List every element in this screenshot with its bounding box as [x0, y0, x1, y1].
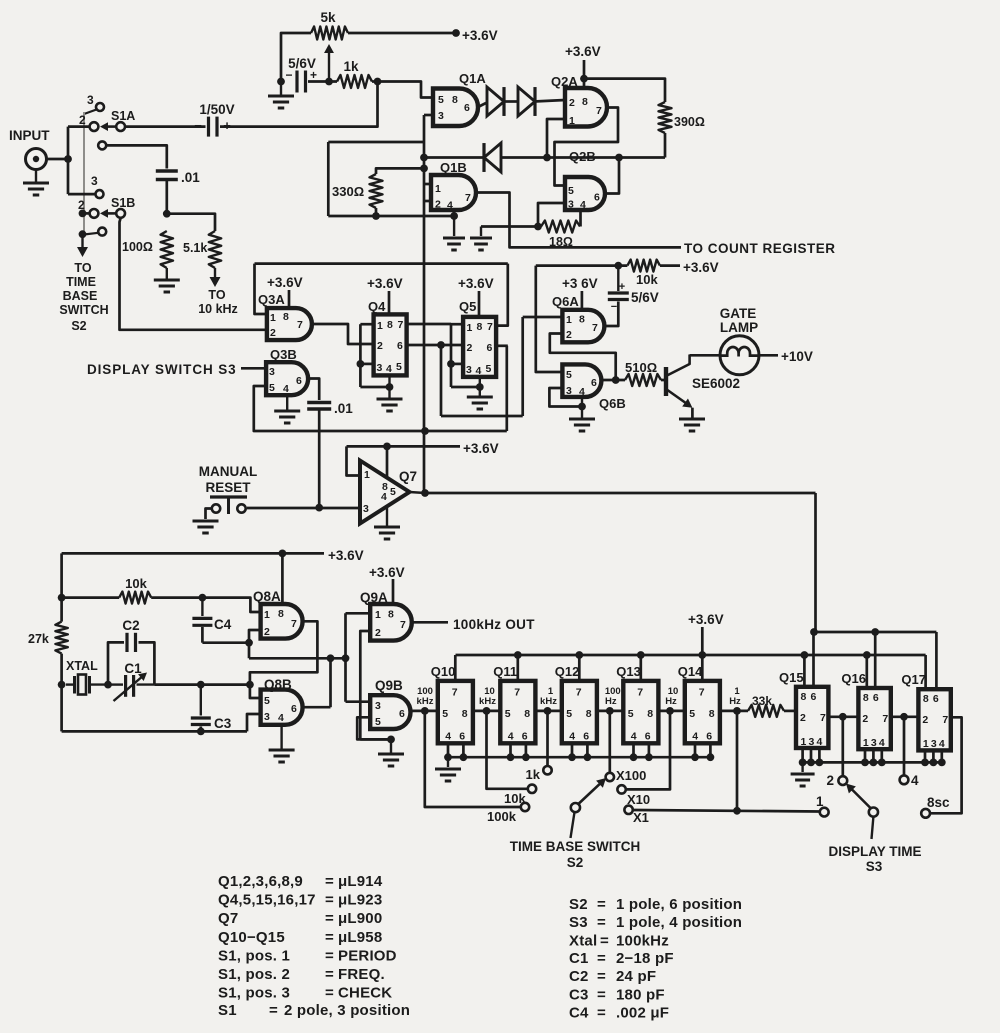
junction (Q1B ground node) [452, 210, 455, 216]
svg-text:C2: C2 [122, 618, 139, 633]
junction (Q5 feedback) [447, 360, 455, 368]
nand gate Q2B [565, 177, 605, 210]
svg-text:8: 8 [801, 691, 807, 703]
junction (Q8A supply) [279, 550, 287, 558]
svg-text:7: 7 [400, 619, 406, 631]
wire 10k to +3.6V [660, 264, 680, 267]
wire display ground bus [803, 761, 943, 764]
wire node to Q8A pin1 [202, 598, 260, 612]
junction (Q13 pin7 rail) [637, 651, 645, 659]
junction (tap) [666, 707, 674, 715]
junction (Q12 pin4 bus) [568, 753, 576, 761]
svg-text:S1A: S1A [111, 109, 135, 123]
transistor SE6002 collector [666, 364, 690, 376]
wire Q7 pin1 feedback [347, 446, 361, 475]
svg-text:2: 2 [270, 327, 276, 339]
svg-text:3: 3 [568, 199, 574, 211]
ground (Q8B) [281, 706, 283, 708]
ic Q14 [685, 681, 720, 743]
svg-text:8sc: 8sc [927, 795, 950, 810]
svg-text:1 pole, 6 position: 1 pole, 6 position [616, 896, 742, 913]
svg-text:5: 5 [486, 363, 492, 375]
wire Q1B pin1 stub [424, 183, 431, 186]
junction (1k left node) [325, 78, 333, 86]
wire C3 bottom [199, 727, 202, 732]
wire divider ground bus [448, 756, 710, 759]
wire Q6B output [601, 379, 625, 382]
svg-text:=: = [325, 910, 334, 927]
nand gate Q3A [267, 308, 312, 340]
wire Q17 out to contact 8sc [930, 717, 962, 813]
svg-text:2: 2 [79, 113, 86, 127]
wire contact4 stem [903, 717, 906, 776]
svg-text:TIME BASE SWITCH: TIME BASE SWITCH [510, 839, 641, 854]
contact 100k (S2) [521, 803, 529, 811]
svg-text:4: 4 [283, 383, 289, 395]
svg-text:1: 1 [801, 736, 807, 748]
svg-text:180 pF: 180 pF [616, 987, 665, 1004]
switch S1A wiper contact [116, 122, 125, 131]
svg-text:5: 5 [438, 94, 444, 106]
svg-text:C3: C3 [214, 716, 232, 731]
wire display switch to Q3B pin3 [241, 367, 266, 370]
wire +3.6V stem (dividers) [701, 627, 704, 655]
junction (Q8B out tap) [327, 654, 335, 662]
ground (18 ohm line) [480, 227, 482, 237]
svg-text:6: 6 [464, 102, 470, 114]
junction (Q7 out node) [421, 489, 429, 497]
wire Q14 pin6 stem [709, 743, 712, 757]
wire supply into Q7 [386, 446, 389, 479]
wire S2 wiper stem [571, 812, 575, 838]
wire +3.6V to Q4 [388, 291, 391, 314]
wire collector to lamp [690, 354, 721, 357]
junction (Q14 pin7 rail) [698, 651, 706, 659]
svg-text:=: = [597, 950, 606, 967]
junction (Q15.8 rail) [801, 651, 809, 659]
wire Q17 pin8 stem [924, 655, 927, 689]
svg-text:1k: 1k [343, 59, 359, 74]
svg-text:Xtal: Xtal [569, 933, 597, 950]
svg-text:S2: S2 [71, 319, 86, 333]
wire Q6A pin2 cross-couple [550, 334, 616, 381]
ic Q16 [858, 688, 890, 749]
svg-text:3: 3 [91, 174, 98, 188]
nand gate Q9B [370, 695, 410, 729]
wire S1A pos1 to .01 cap [107, 145, 167, 168]
wire divider interstage [658, 710, 684, 713]
svg-text:5: 5 [689, 708, 695, 720]
wire D3 to 390 node [500, 156, 665, 159]
wire bottom rail to Q8B pin3 [247, 714, 261, 731]
junction (330 ohm bottom) [372, 212, 380, 220]
junction (Q2A supply node) [580, 75, 588, 83]
svg-text:2: 2 [862, 713, 868, 725]
input jack J1 [26, 149, 47, 170]
wire Q7 line to display gates [816, 631, 937, 634]
wire S1A pos3 to bus [84, 110, 97, 115]
svg-text:6: 6 [706, 731, 712, 743]
svg-text:Q10: Q10 [431, 664, 456, 679]
svg-text:4: 4 [939, 738, 945, 750]
svg-text:6: 6 [873, 692, 879, 704]
ground (Q1B) [453, 216, 455, 236]
svg-text:4: 4 [386, 363, 392, 375]
svg-text:4: 4 [631, 731, 637, 743]
svg-text:X100: X100 [616, 768, 646, 783]
svg-text:TO: TO [208, 288, 225, 302]
svg-text:=: = [325, 929, 334, 946]
switch S1B wiper arrow [104, 212, 116, 215]
svg-text:Q8A: Q8A [253, 589, 281, 604]
svg-text:5: 5 [505, 708, 511, 720]
junction (Q11 pin7 rail) [514, 651, 522, 659]
svg-text:33k: 33k [752, 694, 772, 708]
svg-text:Q9A: Q9A [360, 590, 388, 605]
wire oscillator +3.6V rail [62, 552, 324, 555]
pushbutton manual reset [212, 504, 220, 512]
junction (Q4 feedback) [357, 360, 365, 368]
junction (C3 bottom) [197, 728, 205, 736]
svg-text:100Ω: 100Ω [122, 240, 153, 254]
wire Q13 pin7 stem [639, 655, 642, 681]
junction (S1B pos1 node) [79, 230, 87, 238]
svg-text:3: 3 [566, 385, 572, 397]
svg-text:+3.6V: +3.6V [328, 548, 364, 563]
wire Q8A pin2 net vertical [249, 630, 261, 658]
ground (divider bus) [447, 757, 449, 767]
svg-text:=: = [597, 987, 606, 1004]
wire Q8B output stub [303, 706, 331, 709]
transistor SE6002 emitter [666, 389, 690, 406]
junction (Q9B ground node) [387, 736, 395, 744]
svg-text:5: 5 [269, 382, 275, 394]
svg-text:6: 6 [645, 731, 651, 743]
resistor 5.1k [209, 231, 221, 268]
wire Q12 pin4 stem [571, 743, 574, 757]
wire 5k rail left vertical [281, 33, 311, 82]
svg-text:7: 7 [297, 319, 303, 331]
nand gate Q2A [565, 88, 607, 127]
wire Q2B output [605, 158, 619, 194]
svg-text:3: 3 [87, 93, 94, 107]
svg-text:1: 1 [566, 314, 572, 326]
svg-text:4: 4 [911, 773, 919, 788]
wire 18 ohm left to Q2B pin3 [538, 203, 565, 227]
svg-text:3: 3 [931, 738, 937, 750]
svg-text:4: 4 [817, 736, 823, 748]
svg-text:C2: C2 [569, 968, 589, 985]
wire 18 ohm left line [481, 225, 541, 228]
svg-text:8: 8 [387, 319, 393, 331]
wire Q4 pin3 stub [360, 363, 373, 366]
svg-text:Q14: Q14 [678, 664, 703, 679]
svg-text:7: 7 [514, 687, 520, 699]
svg-text:1: 1 [270, 312, 276, 324]
ground (Q3B) [286, 395, 288, 410]
ground (manual reset) [193, 520, 219, 523]
svg-text:+3.6V: +3.6V [458, 276, 494, 291]
op-amp long vertical (Q1A.3/Q1B inputs to Q7 output net) [423, 115, 426, 493]
wire emitter to ground [691, 408, 694, 418]
svg-text:=: = [325, 985, 334, 1002]
svg-text:510Ω: 510Ω [625, 360, 657, 375]
resistor 510 ohm [625, 374, 661, 386]
svg-text:1: 1 [923, 738, 929, 750]
junction (Q12 pin7 rail) [575, 651, 583, 659]
ic Q13 [623, 681, 658, 743]
svg-text:.01: .01 [181, 170, 200, 185]
capacitor C1 (variable) [108, 683, 123, 685]
wire C4 to Q8A pin2 net [202, 641, 249, 644]
wire Q4 pin6 to Q5 pin2 [407, 344, 464, 347]
svg-text:Q10−Q15: Q10−Q15 [218, 929, 285, 946]
wire C4 bottom [201, 627, 204, 643]
arrow to time base switch [81, 234, 83, 247]
wire S1B pos1 to bus [84, 233, 98, 235]
junction (input node) [64, 155, 72, 163]
wire Q9B output [411, 710, 438, 713]
wire 5/6V to Q6A output [604, 302, 618, 327]
svg-text:BASE: BASE [63, 289, 98, 303]
svg-text:6: 6 [811, 691, 817, 703]
svg-text:Q1,2,3,6,8,9: Q1,2,3,6,8,9 [218, 873, 303, 890]
capacitor 1/50V [207, 117, 210, 137]
svg-text:8: 8 [524, 708, 530, 720]
svg-text:3: 3 [375, 700, 381, 712]
junction (Q11 pin4 bus) [507, 753, 515, 761]
junction (1k right node) [374, 78, 382, 86]
junction (Q5 ground stem) [476, 383, 484, 391]
junction (1 Hz tap) [733, 707, 741, 715]
junction (Q2B out node) [615, 154, 623, 162]
capacitor C4 [201, 598, 203, 616]
svg-text:−: − [194, 118, 202, 133]
contact X10 (S2) [617, 785, 625, 793]
wire Q3B pin5 to bottom rail [254, 386, 507, 431]
svg-text:10 kHz: 10 kHz [198, 302, 238, 316]
svg-text:=: = [597, 914, 606, 931]
junction (10k left) [58, 594, 66, 602]
svg-text:μL958: μL958 [338, 929, 382, 946]
svg-text:2: 2 [800, 712, 806, 724]
wire Q1A pin3 stub [424, 114, 433, 117]
junction (xtal left) [58, 681, 66, 689]
capacitor C2 [125, 633, 128, 652]
svg-text:S1, pos. 2: S1, pos. 2 [218, 966, 290, 983]
wire node to 5.1k [167, 214, 215, 231]
svg-text:C4: C4 [569, 1005, 589, 1022]
wire D2 to Q2A pin 2 [534, 100, 565, 102]
junction (5/6V top node) [614, 262, 622, 270]
wire Q16 pin6 stem [874, 632, 877, 688]
svg-text:4: 4 [569, 731, 575, 743]
wire Q16 bottom stems [864, 749, 867, 762]
resistor 330 ohm top wire [376, 168, 424, 174]
wire Q6B pin3 loop [549, 388, 582, 407]
switch S2 wiper [571, 803, 580, 812]
junction (.01 to Q7 pin3) [315, 504, 323, 512]
wire divider interstage [535, 710, 561, 713]
svg-text:2−18 pF: 2−18 pF [616, 950, 674, 967]
wire Q4 feedback vertical [359, 324, 362, 387]
svg-text:.01: .01 [334, 401, 353, 416]
svg-text:Q13: Q13 [616, 664, 641, 679]
junction (Q16.8 rail) [863, 651, 871, 659]
junction (Q8B pin5 node) [246, 681, 254, 689]
svg-text:7: 7 [699, 687, 705, 699]
svg-text:4: 4 [381, 491, 387, 503]
wire Q17 bottom stems [924, 750, 927, 762]
wire Q9A pin1 stub [346, 612, 371, 615]
wire input node vertical [67, 127, 70, 195]
wire x328 vertical [327, 142, 330, 216]
junction (bottom rail / reset net) [421, 427, 429, 435]
svg-text:8: 8 [923, 693, 929, 705]
wire Q9A pin2 loop [360, 631, 370, 739]
svg-text:C4: C4 [214, 617, 232, 632]
svg-text:=: = [325, 873, 334, 890]
svg-text:8: 8 [586, 708, 592, 720]
wire 510 to base [661, 379, 666, 382]
wire X1 / 1Hz line [633, 810, 820, 812]
svg-text:8: 8 [388, 609, 394, 621]
svg-text:5: 5 [390, 486, 396, 498]
svg-text:kHz: kHz [540, 696, 557, 707]
svg-text:Q11: Q11 [493, 664, 517, 679]
wire X100 tap [608, 711, 611, 773]
wire S1B wiper to Q3A pin 2 [120, 218, 267, 330]
svg-text:Q2B: Q2B [569, 149, 596, 164]
switch S2 wiper arrow [578, 782, 602, 805]
resistor 5k (pot) [311, 27, 348, 40]
svg-text:S2: S2 [569, 896, 588, 913]
wire Q10 pin4 stem [447, 743, 450, 757]
junction (Q12 pin6 bus) [584, 753, 592, 761]
wire Q8B output up [329, 658, 332, 707]
wire osc left bottom [60, 685, 63, 732]
junction (Q16 out) [900, 713, 908, 721]
ground (input jack) [35, 170, 37, 183]
wire X10 tap [626, 711, 670, 790]
svg-text:DISPLAY SWITCH S3: DISPLAY SWITCH S3 [87, 362, 237, 377]
junction (C4/Q8A.2) [245, 639, 253, 647]
wire Q5 feedback to ground stem [451, 386, 480, 389]
svg-text:7: 7 [291, 618, 297, 630]
nand gate Q3B [266, 362, 308, 395]
svg-text:=: = [325, 892, 334, 909]
transistor Q18 SE6002 base bar [664, 367, 668, 396]
contact 1k (S2) [543, 766, 551, 774]
svg-text:8: 8 [579, 314, 585, 326]
junction (Q13 pin6 bus) [645, 753, 653, 761]
svg-text:kHz: kHz [417, 696, 434, 707]
svg-text:7: 7 [637, 687, 643, 699]
junction (tap) [483, 707, 491, 715]
wire 10k right [151, 596, 202, 599]
svg-text:6: 6 [397, 340, 403, 352]
svg-text:FREQ.: FREQ. [338, 966, 385, 983]
nand gate Q8A [261, 604, 303, 639]
junction (5/6V left) [277, 78, 285, 86]
svg-text:5: 5 [628, 708, 634, 720]
svg-text:Q3A: Q3A [258, 292, 285, 307]
wire 390 ohm to diode line [664, 133, 667, 158]
svg-text:5.1k: 5.1k [183, 241, 207, 255]
nand gate Q8B [261, 690, 303, 725]
wire 1k to junction [372, 80, 378, 83]
svg-text:Q1B: Q1B [440, 160, 467, 175]
wire +3.6V to Q3A [288, 290, 291, 308]
svg-text:1 pole, 4 position: 1 pole, 4 position [616, 914, 742, 931]
wire .01 to Q7 pin3 line [318, 411, 321, 508]
svg-text:2: 2 [377, 340, 383, 352]
wire Q5 pin3 stub [451, 363, 463, 366]
wire 5k to +3.6V [348, 32, 458, 35]
ic Q10 [438, 681, 473, 743]
wire .01 cap to node [165, 181, 168, 214]
svg-text:+3.6V: +3.6V [565, 44, 601, 59]
ground (5/6V top) [280, 84, 282, 95]
svg-text:INPUT: INPUT [9, 128, 50, 143]
pot wiper arrow (5k) [328, 52, 330, 82]
resistor 1k [337, 75, 372, 88]
svg-text:330Ω: 330Ω [332, 184, 364, 199]
junction (Q6B out node) [612, 376, 620, 384]
svg-text:8: 8 [709, 708, 715, 720]
nand gate Q1B [431, 175, 476, 210]
junction (tap) [606, 707, 614, 715]
junction (Q4 ground stem) [386, 383, 394, 391]
svg-text:S2: S2 [567, 855, 584, 870]
resistor 33k [748, 705, 784, 717]
svg-text:Q2A: Q2A [551, 74, 578, 89]
svg-text:10k: 10k [125, 576, 147, 591]
svg-text:6: 6 [933, 693, 939, 705]
svg-text:Q5: Q5 [459, 299, 476, 314]
switch S1B position 1 contact [98, 228, 106, 236]
svg-text:100k: 100k [487, 809, 517, 824]
svg-text:6: 6 [591, 377, 597, 389]
svg-text:5: 5 [568, 185, 574, 197]
svg-text:24 pF: 24 pF [616, 968, 656, 985]
svg-text:+3.6V: +3.6V [369, 565, 405, 580]
svg-text:Q16: Q16 [841, 671, 866, 686]
wire Q11 pin6 stem [525, 743, 528, 757]
wire Q8 output line y658 [249, 657, 346, 660]
wire jack to node [47, 158, 69, 161]
svg-text:Q6B: Q6B [599, 396, 626, 411]
svg-text:3: 3 [871, 737, 877, 749]
svg-text:3: 3 [264, 711, 270, 723]
diode D3 line [424, 156, 484, 159]
svg-text:5: 5 [396, 361, 402, 373]
svg-text:+3.6V: +3.6V [688, 612, 724, 627]
contact 10k (S2) [528, 785, 536, 793]
wire Q16 out to Q17 / contact 4 [891, 715, 919, 718]
svg-text:4: 4 [692, 731, 698, 743]
svg-text:.002 μF: .002 μF [616, 1005, 669, 1022]
wire reset to ground [206, 509, 213, 520]
svg-text:RESET: RESET [205, 480, 251, 495]
wire Q16 pin8 stem [865, 655, 868, 688]
wire Q1B output to count register [476, 193, 681, 248]
wire Q9A/Q9B input vertical [344, 613, 347, 701]
wire Q2A pin1 down [547, 119, 565, 158]
svg-text:=: = [597, 968, 606, 985]
wire divider interstage [473, 710, 500, 713]
svg-text:7: 7 [452, 687, 458, 699]
